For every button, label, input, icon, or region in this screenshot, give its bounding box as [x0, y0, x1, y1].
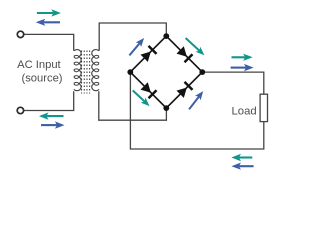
arrow current teal bridge lower-left	[133, 90, 145, 101]
svg-text:(source): (source)	[21, 73, 62, 85]
wire top input	[24, 34, 74, 50]
node right junction	[199, 69, 205, 75]
arrow current teal top-left rightward	[37, 12, 54, 14]
wire bridge output positive to load	[202, 72, 263, 94]
terminal top input	[17, 31, 23, 37]
arrow current teal bottom-left leftward	[46, 115, 63, 117]
transformer T1 core	[81, 51, 83, 94]
wire secondary top to bridge	[99, 23, 166, 51]
diode D1 left-to-top	[141, 52, 151, 62]
transformer T1 primary winding	[74, 50, 81, 91]
wire secondary bottom to bridge	[99, 91, 167, 120]
arrow current teal bridge upper-right	[186, 38, 200, 51]
svg-text:AC Input: AC Input	[17, 59, 61, 71]
arrow current teal right-side rightward	[232, 56, 246, 58]
arrow current teal bottom-right leftward	[239, 156, 252, 158]
bridge edge left-top	[130, 36, 166, 72]
diode D2 top-to-right	[177, 46, 187, 56]
diode D4 bottom-to-right	[177, 88, 187, 98]
arrow current blue bottom-left rightward	[41, 124, 57, 126]
arrow current blue right-side rightward	[231, 67, 247, 69]
node bottom junction	[163, 105, 169, 111]
node left junction	[127, 69, 133, 75]
node top junction	[163, 33, 169, 39]
load resistor	[260, 94, 267, 121]
arrow current blue bridge lower-right	[189, 97, 199, 110]
wire bottom input	[24, 91, 74, 110]
transformer T1 secondary winding	[92, 50, 99, 91]
bridge edge left-bottom	[130, 72, 166, 108]
wire load return to bridge negative	[130, 73, 263, 149]
arrow current blue top-left leftward	[43, 21, 60, 23]
bridge edge top-right	[166, 36, 202, 72]
svg-text:Load: Load	[232, 105, 257, 117]
bridge edge bottom-right	[166, 72, 202, 108]
diode D3 left-to-bottom	[141, 82, 151, 92]
arrow current blue bottom-right leftward	[239, 165, 254, 167]
terminal bottom input	[17, 107, 23, 113]
arrow current blue bridge upper-left	[129, 43, 139, 55]
